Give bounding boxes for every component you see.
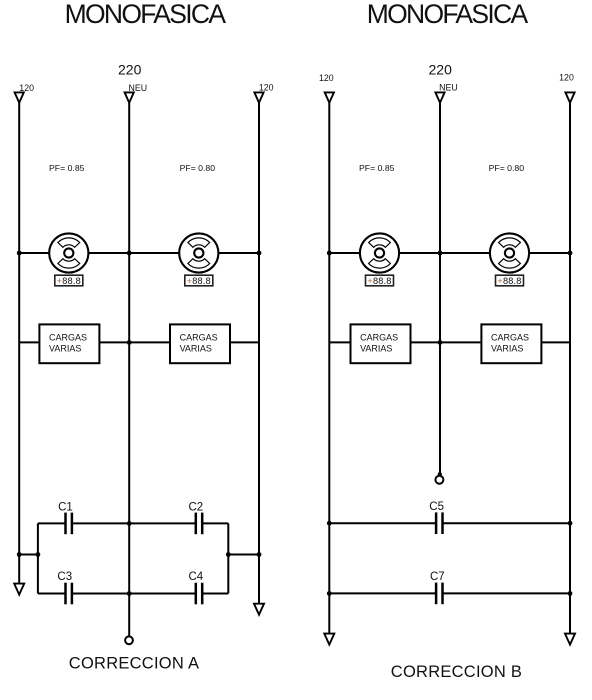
label 220 left xyxy=(118,61,142,77)
capacitor C7 xyxy=(436,583,442,605)
label PF= 0.80 circuit A xyxy=(180,163,216,173)
wire top row to C1 xyxy=(38,522,66,524)
wire bottom row to C3 xyxy=(38,593,66,595)
label 120 node L3 xyxy=(259,83,274,93)
junction C7 row @ L4 xyxy=(327,591,332,596)
junction cap top row @ NEU A xyxy=(127,521,132,526)
wire M1 to NEU A xyxy=(88,252,129,254)
wire cap bank right side vertical xyxy=(227,523,229,593)
wire rail L4 (120) circuit B xyxy=(328,102,330,634)
svg-text:CARGAS: CARGAS xyxy=(491,333,529,343)
wattmeter M2 xyxy=(179,233,218,272)
label PF= 0.80 circuit B xyxy=(489,163,525,173)
wire LD3 to NEU B xyxy=(411,341,441,343)
label PF= 0.85 circuit B xyxy=(359,163,395,173)
junction cap bottom row @ NEU A xyxy=(127,591,132,596)
svg-text:NEU: NEU xyxy=(439,82,458,92)
label CORRECCION B xyxy=(391,663,522,681)
wattmeter M3 xyxy=(360,233,399,272)
svg-text:CARGAS: CARGAS xyxy=(49,333,87,343)
wire NEU A to C4 xyxy=(129,593,196,595)
wire L4 to C5 xyxy=(329,522,436,524)
wire rail L1 (120) circuit A xyxy=(18,102,20,584)
wire C5 to L6 xyxy=(443,522,571,524)
wire C1 to NEU A xyxy=(72,522,129,524)
wire L1 to M1 xyxy=(19,252,49,254)
junction stub @ L3 xyxy=(257,552,262,557)
meter display M4 value +88.8 xyxy=(496,275,524,286)
wire NEU B to LD4 xyxy=(440,341,480,343)
terminal arrow 120 left-B xyxy=(325,92,334,102)
wire cap bank stub to L3 xyxy=(228,554,259,556)
meter display M1 value +88.8 xyxy=(55,275,83,286)
junction meter row @ L4 xyxy=(327,251,332,256)
label 120 node L1 xyxy=(19,83,34,93)
title MONOFASICA right xyxy=(367,0,529,29)
wire NEU A to M2 xyxy=(129,252,179,254)
wire C2 to corner xyxy=(202,522,228,524)
wire rail L5 (NEU) circuit B xyxy=(439,102,441,475)
wire C7 to L6 xyxy=(443,592,571,594)
junction meter row @ NEU A xyxy=(127,251,132,256)
label 120 node L6 xyxy=(559,73,574,83)
wire C4 to corner xyxy=(202,593,228,595)
label C7 value xyxy=(430,571,445,583)
meter display M2 value +88.8 xyxy=(185,275,213,286)
svg-text:120: 120 xyxy=(559,73,574,83)
junction meter row @ L3 xyxy=(257,251,262,256)
junction C5 row @ L4 xyxy=(327,521,332,526)
wire M3 to NEU B xyxy=(399,252,440,254)
arrow terminal 120 bottom L6 xyxy=(565,634,575,645)
wattmeter M4 xyxy=(490,233,529,272)
capacitor C3 xyxy=(66,583,72,605)
svg-text:PF= 0.85: PF= 0.85 xyxy=(359,163,395,173)
wire NEU A to LD2 xyxy=(129,341,169,343)
node NEU B output circle xyxy=(435,476,443,484)
label C4 value xyxy=(189,571,204,583)
svg-text:C2: C2 xyxy=(189,501,204,513)
junction stub @ L1 xyxy=(17,552,22,557)
capacitor C1 xyxy=(66,513,72,535)
capacitor C5 xyxy=(436,512,442,534)
wire L1 to load LD1 xyxy=(19,341,38,343)
load box LD4 CARGAS VARIAS xyxy=(481,324,541,363)
label C5 value xyxy=(429,501,444,513)
junction load row @ NEU B xyxy=(438,340,443,345)
svg-text:PF= 0.85: PF= 0.85 xyxy=(49,163,85,173)
junction load row @ NEU A xyxy=(127,340,132,345)
svg-text:120: 120 xyxy=(319,73,334,83)
junction C5 row @ L6 xyxy=(568,521,573,526)
node NEU B end dot xyxy=(438,472,442,476)
wire L4 to M3 xyxy=(329,252,360,254)
arrow terminal 120 bottom L1 xyxy=(14,584,24,595)
svg-text:+88.8: +88.8 xyxy=(367,276,391,286)
label NEU node L2 xyxy=(129,83,148,93)
junction stub @ cap bank left xyxy=(36,552,41,557)
svg-text:C5: C5 xyxy=(429,501,444,513)
wire LD4 to L6 xyxy=(540,341,570,343)
svg-text:120: 120 xyxy=(19,83,34,93)
terminal arrow 120 left-A xyxy=(15,92,24,102)
svg-text:VARIAS: VARIAS xyxy=(491,344,523,354)
wire NEU B to M4 xyxy=(440,252,490,254)
svg-text:220: 220 xyxy=(429,62,453,78)
svg-text:CARGAS: CARGAS xyxy=(360,333,398,343)
wire M2 to L3 xyxy=(218,252,259,254)
svg-text:MONOFASICA: MONOFASICA xyxy=(367,0,529,29)
svg-text:CORRECCION A: CORRECCION A xyxy=(69,655,199,673)
svg-text:C3: C3 xyxy=(57,571,72,583)
svg-text:+88.8: +88.8 xyxy=(187,276,211,286)
wire LD2 to L3 xyxy=(230,341,259,343)
svg-text:VARIAS: VARIAS xyxy=(49,344,81,354)
wire rail L6 (120) circuit B xyxy=(569,102,571,634)
junction meter row @ NEU B xyxy=(438,251,443,256)
svg-text:120: 120 xyxy=(259,83,274,93)
label 120 node L4 xyxy=(319,73,334,83)
wire L4 to C7 xyxy=(329,592,436,594)
capacitor C2 xyxy=(196,513,202,535)
terminal arrow NEU B xyxy=(435,92,444,102)
label CORRECCION A xyxy=(69,655,199,673)
load box LD1 CARGAS VARIAS xyxy=(39,324,99,363)
svg-text:CORRECCION B: CORRECCION B xyxy=(391,663,522,681)
junction meter row @ L6 xyxy=(568,251,573,256)
terminal arrow NEU A xyxy=(125,92,134,102)
wire M4 to L6 xyxy=(529,252,570,254)
wire LD1 to NEU A xyxy=(99,341,129,343)
svg-text:+88.8: +88.8 xyxy=(57,276,81,286)
svg-text:C7: C7 xyxy=(430,571,445,583)
junction meter row @ L1 xyxy=(17,251,22,256)
wire NEU A to C2 xyxy=(129,522,196,524)
load box LD2 CARGAS VARIAS xyxy=(170,324,230,363)
wire L4 to LD3 xyxy=(329,341,349,343)
arrow terminal 120 bottom L3 xyxy=(254,604,264,615)
terminal arrow 120 right-A xyxy=(254,92,263,102)
wire C3 to NEU A xyxy=(72,593,129,595)
svg-text:C1: C1 xyxy=(58,501,73,513)
label C2 value xyxy=(189,501,204,513)
wire rail L2 (NEU) circuit A xyxy=(128,102,130,637)
wire cap bank left side vertical xyxy=(37,523,39,593)
svg-text:C4: C4 xyxy=(189,571,204,583)
wire L1 stub to cap bank xyxy=(19,554,38,556)
capacitor C4 xyxy=(196,583,202,605)
svg-text:PF= 0.80: PF= 0.80 xyxy=(180,163,216,173)
svg-text:+88.8: +88.8 xyxy=(497,276,521,286)
meter display M3 value +88.8 xyxy=(366,275,394,286)
label 220 right xyxy=(429,62,453,78)
terminal arrow 120 right-B xyxy=(565,92,574,102)
svg-text:CARGAS: CARGAS xyxy=(180,333,218,343)
label C1 value xyxy=(58,501,73,513)
title MONOFASICA left xyxy=(65,0,227,29)
label C3 value xyxy=(57,571,72,583)
junction stub @ cap bank right xyxy=(226,552,231,557)
label PF= 0.85 circuit A xyxy=(49,163,85,173)
wire rail L3 (120) circuit A xyxy=(258,102,260,604)
label NEU node L5 xyxy=(439,82,458,92)
node NEU A output circle xyxy=(125,636,133,644)
load box LD3 CARGAS VARIAS xyxy=(351,324,411,363)
junction C7 row @ L6 xyxy=(568,591,573,596)
svg-text:VARIAS: VARIAS xyxy=(360,344,392,354)
svg-text:PF= 0.80: PF= 0.80 xyxy=(489,163,525,173)
arrow terminal 120 bottom L4 xyxy=(324,634,334,645)
svg-text:VARIAS: VARIAS xyxy=(180,344,212,354)
svg-text:220: 220 xyxy=(118,61,142,77)
wattmeter M1 xyxy=(49,233,88,272)
svg-text:MONOFASICA: MONOFASICA xyxy=(65,0,227,29)
